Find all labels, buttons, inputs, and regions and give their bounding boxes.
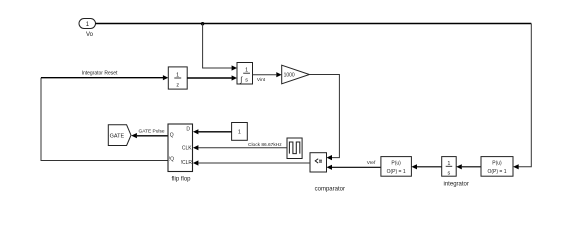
wire gain to comparator input 1 [309, 75, 339, 161]
svg-text:integrator: integrator [444, 181, 469, 187]
svg-text:1000: 1000 [284, 73, 295, 79]
wire integrator to gain, label Vint [253, 72, 282, 83]
svg-text:Vref: Vref [367, 160, 376, 166]
integrator with reset block 1/s [237, 63, 253, 85]
unit delay 1/z [168, 67, 187, 89]
svg-text:D: D [186, 127, 190, 133]
integrator block 1/s [442, 157, 469, 188]
svg-text:s: s [448, 171, 451, 177]
svg-text:1: 1 [238, 130, 241, 136]
outport Vo [79, 19, 96, 38]
svg-text:GATE Pulse: GATE Pulse [138, 129, 164, 135]
svg-text:GATE: GATE [110, 133, 125, 139]
svg-text:1: 1 [245, 68, 248, 74]
svg-text:s: s [245, 77, 248, 83]
svg-text:Vo: Vo [86, 32, 94, 38]
svg-text:z: z [176, 82, 179, 88]
svg-text:Clock 86.67kHz: Clock 86.67kHz [248, 142, 282, 148]
wire flip-flop Q to GATE, label GATE Pulse [131, 129, 168, 139]
svg-text:!CLR: !CLR [181, 160, 193, 166]
fcn block P(u) left [381, 157, 412, 177]
comparator block <= [310, 153, 345, 193]
svg-text:Integrator Reset: Integrator Reset [82, 70, 118, 76]
svg-text:P(u): P(u) [492, 160, 502, 166]
node junction on Vo bus [201, 22, 204, 25]
wire Vo bus top [96, 23, 532, 25]
wire flip-flop !Q feedback (Integrator Reset) [41, 70, 168, 160]
svg-text:O(P) = 1: O(P) = 1 [387, 169, 406, 175]
svg-text:1: 1 [176, 72, 179, 78]
wire constant to flip-flop D [193, 129, 232, 134]
pulse generator clock [287, 138, 302, 159]
svg-text:CLK: CLK [182, 146, 192, 152]
wire Vref to comparator input 2 [327, 160, 381, 170]
svg-text:flip flop: flip flop [171, 177, 191, 183]
wire pulse generator to flip-flop CLK [193, 145, 287, 150]
wire unit delay to integrator input 2 [187, 75, 237, 80]
svg-text:P(u): P(u) [391, 160, 401, 166]
fcn block P(u) right [481, 157, 513, 177]
wire comparator to flip-flop !CLR [193, 160, 310, 165]
svg-text:O(P) = 1: O(P) = 1 [487, 169, 506, 175]
wire integrator 1/s to fcn left [411, 164, 441, 169]
goto tag GATE [108, 125, 131, 146]
gain 1000 [282, 65, 310, 84]
constant 1 [232, 123, 248, 141]
wire branch down to integrator input 1 [203, 24, 237, 71]
svg-text:comparator: comparator [315, 187, 345, 193]
wire Vo bus right vertical down to P(u) [513, 24, 531, 170]
wire fcn right to integrator 1/s [456, 164, 481, 169]
svg-text:!Q: !Q [169, 156, 174, 162]
flip flop block [168, 124, 193, 183]
svg-text:Q: Q [170, 132, 174, 138]
svg-text:Vint: Vint [257, 77, 266, 83]
